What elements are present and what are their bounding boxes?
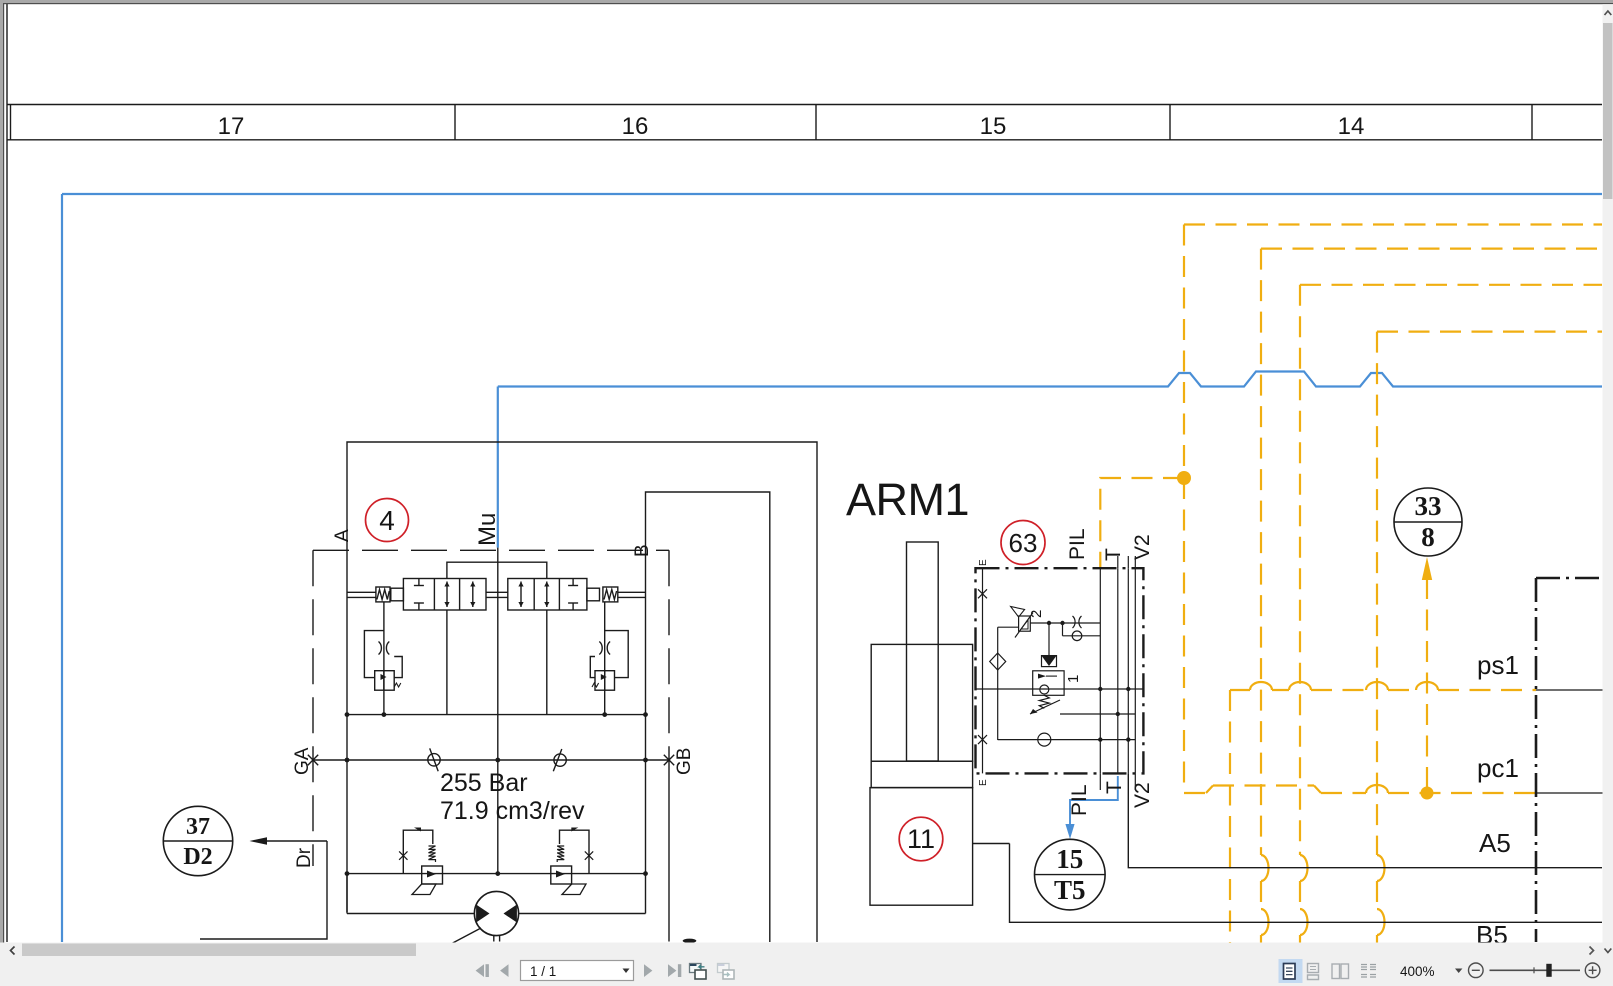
spool A pilot wires	[347, 591, 376, 593]
pump regulator A actuator flag	[412, 884, 436, 895]
vertical scrollbar up button	[1605, 11, 1612, 15]
GB plugged port x	[664, 755, 674, 765]
valve block 63 boundary (bold dash-dot)	[976, 568, 1144, 773]
motor flow triangles	[476, 905, 489, 923]
junction dots on GA bus	[345, 758, 350, 763]
spool B pilot wires	[618, 591, 646, 593]
red item balloon 63	[1001, 521, 1045, 565]
nav first page button	[476, 964, 484, 977]
check valve on GA bus right	[554, 754, 566, 766]
valve block 4 dashed boundary top	[313, 549, 669, 551]
zoom out button	[1469, 963, 1484, 978]
port relief valve B body	[595, 671, 615, 691]
window frame top	[0, 0, 1613, 3]
Mu pilot line black segment through spool gap	[497, 548, 499, 874]
block63 vent wire y714	[1060, 713, 1135, 715]
block63 test diamond	[990, 653, 1006, 670]
item 2 reducing valve wire	[998, 626, 1019, 628]
zoom in button	[1585, 963, 1600, 978]
pilot bridge wire above spools	[447, 562, 547, 578]
item 1 filled poppet triangle	[1042, 656, 1057, 666]
spool A drop wire to bus	[446, 610, 448, 715]
spool coupling rods	[486, 591, 508, 593]
pump regulator B body	[551, 866, 572, 884]
balloon 33/8 circle	[1394, 488, 1462, 556]
orange ps1 wire with crossover humps	[1230, 689, 1536, 691]
GA/GB bus wire y760	[313, 759, 669, 761]
cut glyph at sheet bottom	[683, 939, 697, 943]
block63 T rail	[1117, 568, 1119, 773]
drawing sheet border (left edge)	[6, 4, 8, 942]
B5 wire	[1010, 844, 1603, 923]
blue frame top wire	[62, 193, 1602, 195]
orange junction dot pc1/arrow node	[1421, 787, 1434, 800]
GA plugged port x	[308, 755, 318, 765]
item 1 spring	[1039, 695, 1049, 708]
port relief valve A check arcs	[379, 642, 390, 655]
facing layout button	[1332, 964, 1340, 979]
balloon 37/D2 divider	[164, 840, 233, 842]
previous view icon	[690, 964, 702, 973]
header zone divider 15/14	[1169, 105, 1171, 140]
header zone band bottom line	[7, 139, 1602, 141]
item 2 spring flag	[1011, 607, 1025, 618]
item 1 relief valve body	[1033, 671, 1064, 696]
A5 wire	[1128, 773, 1602, 867]
blue pilot horizontal wire with crossover humps	[498, 372, 1602, 387]
block63 PIL rail	[1099, 568, 1101, 773]
orange vertical wire x1230	[1229, 690, 1231, 986]
cylinder base block	[870, 788, 973, 906]
item 2 arrow	[1015, 613, 1033, 638]
motor variable displacement arrow	[447, 928, 481, 946]
junction dots on regulator bus	[345, 871, 350, 876]
port relief valve B enclosure	[590, 631, 628, 678]
valve block 5 boundary top edge (bold dash-dot)	[1536, 577, 1613, 580]
orange vertical wire x1261 with crossover jogs	[1260, 249, 1262, 986]
cylinder gland band	[871, 761, 972, 787]
orange pilot wire h3	[1300, 284, 1602, 286]
orange vertical wire x1300 with crossover jogs	[1299, 285, 1301, 986]
pump regulator B actuator flag	[562, 884, 586, 895]
single page layout button (active)	[1279, 959, 1303, 983]
orange vertical wire x1184 to pc1 corner	[1183, 478, 1185, 793]
svg-text:400%: 400%	[1400, 964, 1435, 979]
item 2 reducing valve body	[1019, 616, 1031, 631]
hydraulic motor circle	[474, 891, 518, 935]
red item balloon 11	[899, 817, 943, 861]
block63 left loop wire	[997, 627, 999, 740]
motor suction wire left	[347, 913, 474, 915]
zoom slider	[1490, 969, 1581, 971]
cylinder port wire to B5	[973, 843, 1010, 845]
valve block 4 dashed boundary left	[312, 550, 314, 866]
vertical scrollbar track	[1603, 4, 1613, 942]
Dr drain wire with left arrowhead	[262, 840, 327, 842]
orange junction dot PIL node	[1177, 471, 1191, 485]
spool A cell symbols	[418, 579, 420, 586]
spool A return spring	[376, 587, 390, 602]
blue pilot vertical wire from Mu port	[497, 387, 499, 548]
header zone divider 16/15	[815, 105, 817, 140]
check valve on GA bus left	[428, 754, 440, 766]
header zone divider 14/13	[1531, 105, 1533, 140]
tank bus wire y714.6	[347, 714, 646, 716]
vertical scrollbar down button	[1605, 949, 1612, 953]
B pipe below GB to sheet bottom	[668, 772, 670, 942]
header zone band top line	[7, 104, 1602, 106]
spool B pilot cap	[587, 588, 600, 601]
pump regulator A spring	[429, 846, 436, 862]
blue frame left wire	[61, 194, 63, 942]
motor delivery wire right	[519, 913, 646, 915]
spool B drop wire to bus	[546, 610, 548, 715]
svg-text:1 / 1: 1 / 1	[530, 964, 556, 979]
ps1 port wire inside block 5	[1536, 689, 1613, 691]
orange vertical wire x1377 with crossover jogs	[1376, 332, 1378, 986]
valve block 4 inner B-line box	[646, 492, 770, 942]
valve block 5 boundary left edge (bold dash-dot)	[1535, 578, 1538, 942]
window frame left	[0, 0, 3, 957]
pump regulator B enclosure	[560, 830, 590, 873]
blue leader wire from T port to balloon 15/T5	[1070, 776, 1118, 830]
block63 check valve arcs	[1073, 616, 1082, 628]
block63 plugged port bottom	[978, 735, 987, 744]
nav next page button	[644, 964, 652, 977]
block63 bottom wire y739.6 with orifice	[998, 739, 1136, 741]
balloon 15/T5 circle	[1035, 839, 1106, 910]
block63 port stubs above boundary	[1117, 556, 1119, 568]
pump regulator B spring	[557, 846, 564, 862]
continuous layout button	[1308, 964, 1319, 973]
orange wire junction to PIL port of valve 63	[1100, 478, 1184, 567]
cylinder barrel	[871, 644, 972, 761]
block63 top distribution wire	[1030, 622, 1100, 624]
item 1 pilot arrow	[1030, 700, 1060, 714]
motor left vertical from housing	[346, 874, 348, 914]
pc1 port wire inside block 5	[1536, 792, 1613, 794]
horizontal scrollbar right button	[1590, 947, 1594, 955]
spool B drop from spring	[604, 602, 606, 715]
port relief valve A body	[375, 671, 395, 691]
horizontal scrollbar thumb	[22, 944, 416, 957]
spool A drop from spring	[383, 602, 385, 715]
orange pc1 wire with raised crossover	[1184, 786, 1536, 794]
junction dots on tank bus	[345, 712, 350, 717]
balloon 15/T5 divider	[1035, 874, 1106, 876]
pump regulator A enclosure	[403, 830, 433, 873]
port relief valve B check arcs	[599, 642, 610, 655]
orange pilot wire h4	[1377, 331, 1602, 333]
block63 plugged port top	[978, 589, 987, 598]
vertical scrollbar thumb	[1603, 23, 1613, 199]
balloon 37/D2 circle	[163, 806, 232, 875]
block63 inner left rail	[982, 568, 984, 773]
header band inner left line	[10, 105, 12, 140]
horizontal scrollbar left button	[11, 947, 15, 955]
next view icon	[718, 964, 730, 973]
block63 port stubs below boundary	[1099, 773, 1101, 790]
spool valve B body (3 position)	[508, 579, 587, 611]
spool valve A body (3 position)	[403, 579, 486, 611]
block63 A-line wire y689	[976, 688, 1144, 690]
continuous facing layout button	[1361, 965, 1376, 978]
orange pilot wire h2	[1261, 248, 1602, 250]
motor shaft lines	[493, 936, 495, 942]
block63 orifice circle wire	[1063, 635, 1101, 637]
spool A pilot cap	[391, 588, 404, 601]
spool B cell symbols	[520, 582, 522, 608]
valve block 4 dashed boundary right	[668, 550, 670, 772]
block63 V2 rail 2	[1134, 568, 1136, 773]
item 1 relief feed wire	[1048, 623, 1050, 656]
bottom toolbar background	[0, 943, 1613, 986]
Dr drain pipe L	[200, 841, 327, 939]
port relief valve A enclosure	[364, 631, 402, 678]
pump regulator A body	[422, 866, 443, 884]
regulator bus wire y873.6	[347, 873, 646, 875]
orange pilot wire h1 (to zone 14 right)	[1184, 223, 1602, 225]
header zone divider 17/16	[454, 105, 456, 140]
spool B return spring	[603, 587, 618, 602]
page number box	[521, 961, 634, 981]
orange leader wire to balloon 33/8 with up arrowhead	[1426, 578, 1428, 793]
cylinder rod	[907, 542, 939, 761]
nav prev page button	[500, 964, 508, 977]
balloon 33/8 divider	[1394, 521, 1462, 523]
block63 V2 rail 1	[1127, 568, 1129, 773]
orange vertical wire x1184 down to junction	[1183, 225, 1185, 479]
nav last page button	[668, 964, 676, 977]
valve block 4 outer housing box	[347, 442, 817, 942]
red item balloon 4	[366, 499, 409, 542]
